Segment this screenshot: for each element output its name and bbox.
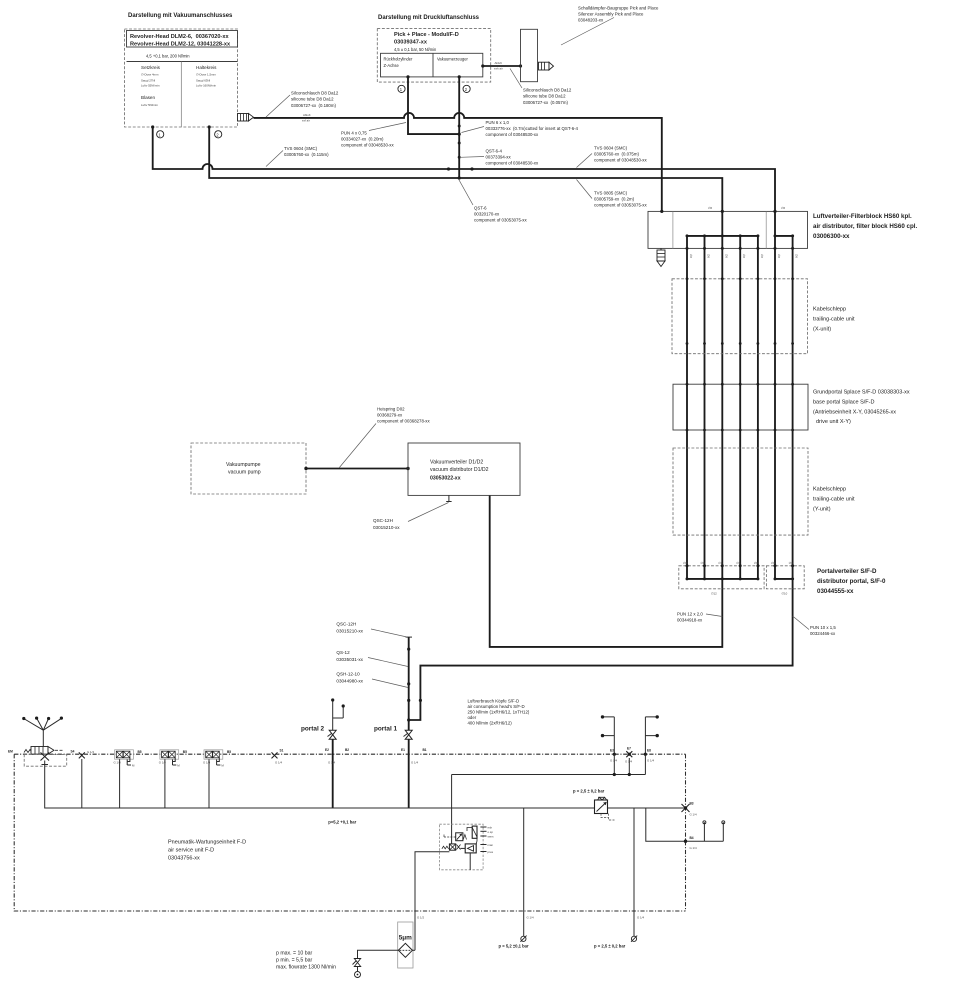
svg-text:4,5 ± 0,1 bar, 50 Nl/min: 4,5 ± 0,1 bar, 50 Nl/min <box>394 47 437 52</box>
svg-text:Revolver-Head DLM2-12, 0304122: Revolver-Head DLM2-12, 03041228-xx <box>130 42 231 48</box>
label QSC-12H riser <box>336 622 407 638</box>
tube PUN6 from box2 port2 <box>458 77 461 180</box>
wire drop line 3 <box>721 236 723 566</box>
box Pick+Place titles <box>394 32 459 52</box>
svg-text:Saugl 27Nl: Saugl 27Nl <box>141 79 155 83</box>
wire drop line 2 <box>704 236 706 566</box>
label QSC-12H under distributor <box>373 503 449 531</box>
svg-text:component of 03048530-xx: component of 03048530-xx <box>486 161 539 166</box>
svg-text:03005760-xx (0.075m): 03005760-xx (0.075m) <box>594 152 639 157</box>
silencer muffler on box1 right edge <box>238 114 254 122</box>
svg-text:B5: B5 <box>227 750 231 754</box>
node port2 box2 <box>458 75 471 92</box>
svg-text:vacuum pump: vacuum pump <box>228 470 261 476</box>
svg-text:2: 2 <box>216 132 219 137</box>
svg-text:air distributor, filter block: air distributor, filter block HS60 cpl. <box>813 223 917 230</box>
node port1 box2 <box>398 75 410 92</box>
svg-text:00344918-xx: 00344918-xx <box>677 618 703 623</box>
svg-text:∅-Duse 1,5mm: ∅-Duse 1,5mm <box>196 73 216 77</box>
svg-text:B3: B3 <box>690 802 694 806</box>
svg-text:G 1/4: G 1/4 <box>647 759 654 763</box>
label Kabelschlepp Y-unit <box>813 487 855 513</box>
title Darstellung mit Druckluftanschluss <box>378 15 480 21</box>
svg-text:03044980-xx: 03044980-xx <box>336 679 363 684</box>
box Kabelschlepp Y-unit <box>673 448 808 535</box>
svg-text:∅6: ∅6 <box>689 254 693 259</box>
filter unit B5 no2 <box>159 750 187 808</box>
svg-text:∅6: ∅6 <box>707 254 711 259</box>
valve B3 on right edge <box>682 802 697 817</box>
svg-text:Darstellung mit Vakuumanschlus: Darstellung mit Vakuumanschlusses <box>128 13 233 19</box>
svg-text:Abluft: Abluft <box>495 61 503 65</box>
svg-text:Silencer Assembly Pick and Pla: Silencer Assembly Pick and Place <box>578 12 644 17</box>
svg-text:Pneumatik-Wartungseinheit F-D: Pneumatik-Wartungseinheit F-D <box>168 840 246 846</box>
svg-text:component of 03048530-xx: component of 03048530-xx <box>594 158 647 163</box>
svg-text:M: M <box>177 764 180 768</box>
svg-text:Schalldämpfer-Baugruppe Pick a: Schalldämpfer-Baugruppe Pick and Place <box>578 6 659 11</box>
service assembly check valve <box>465 843 493 854</box>
svg-text:Luftverteiler-Filterblock HS60: Luftverteiler-Filterblock HS60 kpl. <box>813 213 912 220</box>
filter block internal manifold middle <box>686 211 760 237</box>
svg-text:∅6: ∅6 <box>754 561 759 565</box>
labels diam12 diam10 outputs <box>711 592 788 596</box>
svg-text:QS-12: QS-12 <box>336 650 350 655</box>
valve portal 1 <box>374 726 412 740</box>
wire gauge2 drop <box>634 808 644 936</box>
wire portal2 valve to bus <box>332 739 334 808</box>
label TVS 0604 right <box>577 146 648 168</box>
svg-text:00334027-xx (0.20m): 00334027-xx (0.20m) <box>341 137 384 142</box>
dots at filter block bottom edge <box>686 247 795 250</box>
label QST-6-4 <box>460 149 539 166</box>
svg-text:QSC-12H: QSC-12H <box>373 518 393 523</box>
gauge p=2,5 bar <box>594 936 637 949</box>
svg-text:00324466-xx: 00324466-xx <box>810 631 836 636</box>
node portal2 crossing labels <box>325 748 349 765</box>
svg-text:component of 03048530-xx: component of 03048530-xx <box>486 132 539 137</box>
filter 5um <box>398 922 415 968</box>
svg-text:G 1/4: G 1/4 <box>328 761 335 765</box>
svg-text:03043756-xx: 03043756-xx <box>168 856 200 862</box>
svg-text:00373394-xx: 00373394-xx <box>486 155 512 160</box>
svg-text:Heispring D02: Heispring D02 <box>377 407 405 412</box>
svg-text:∅6: ∅6 <box>708 206 713 210</box>
svg-text:03006727-xx (0.057m): 03006727-xx (0.057m) <box>523 100 568 105</box>
wire supply to filter <box>358 950 399 958</box>
svg-text:G 1/4: G 1/4 <box>637 916 644 920</box>
label Luftverbrauch Koepfe <box>468 699 530 726</box>
svg-text:∅12: ∅12 <box>711 592 717 596</box>
svg-text:2: 2 <box>465 87 468 92</box>
svg-text:pres: pres <box>488 850 494 854</box>
svg-text:∅6: ∅6 <box>771 561 776 565</box>
svg-text:Saugl 63Nl: Saugl 63Nl <box>196 79 210 83</box>
svg-text:B4: B4 <box>690 836 694 840</box>
svg-text:250 Nl/min (1xRH6/12, 1xTH12): 250 Nl/min (1xRH6/12, 1xTH12) <box>468 710 530 715</box>
wire riser to service assembly <box>451 775 453 837</box>
svg-text:QSC-12H: QSC-12H <box>336 622 356 627</box>
wire branch B4 <box>646 808 725 850</box>
box Pick+Place outer dashed <box>377 28 490 82</box>
svg-text:M: M <box>221 764 224 768</box>
svg-text:p max. = 10 bar: p max. = 10 bar <box>276 951 312 957</box>
svg-text:03053022-xx: 03053022-xx <box>430 476 461 482</box>
wire drop line 1 <box>686 236 688 566</box>
svg-text:∅6: ∅6 <box>777 254 781 259</box>
vent silencer assembly left <box>8 747 63 755</box>
svg-text:1: 1 <box>400 87 403 92</box>
svg-text:Vakuumpumpe: Vakuumpumpe <box>226 462 261 468</box>
svg-text:trailing-cable unit: trailing-cable unit <box>813 497 855 503</box>
service assembly solenoid valve <box>467 826 494 844</box>
svg-text:Z-Achse: Z-Achse <box>384 63 400 68</box>
svg-text:EM: EM <box>8 750 13 754</box>
svg-text:Revolver-Head DLM2-6, 0036702: Revolver-Head DLM2-6, 00367020-xx <box>130 34 229 40</box>
regulator with relief p=2,5 bar <box>573 789 615 821</box>
valve S4 on main line <box>71 750 95 809</box>
svg-text:Blasen: Blasen <box>141 95 155 100</box>
label Pneumatik-Wartungseinheit <box>168 840 246 862</box>
svg-text:G 1/4: G 1/4 <box>690 846 697 850</box>
svg-text:exf air: exf air <box>302 119 310 123</box>
svg-text:4,5 +0,1 bar, 200 Nl/min: 4,5 +0,1 bar, 200 Nl/min <box>146 54 190 59</box>
wire pump to distributor <box>304 467 409 470</box>
svg-text:03006727-xx (0.180m): 03006727-xx (0.180m) <box>291 103 336 108</box>
svg-text:QST-6: QST-6 <box>474 206 487 211</box>
svg-text:portal 2: portal 2 <box>301 726 325 733</box>
service assembly dashed box <box>439 824 483 870</box>
label PUN 6x1,0 <box>462 120 579 137</box>
svg-text:∅6: ∅6 <box>760 254 764 259</box>
label air distributor filter block <box>813 213 917 240</box>
svg-text:Vakuumerzeuger: Vakuumerzeuger <box>437 57 469 62</box>
svg-text:03044555-xx: 03044555-xx <box>817 588 854 595</box>
node QSC-12H cap on portal1 riser <box>406 636 413 638</box>
svg-text:PUN 12 x 2,0: PUN 12 x 2,0 <box>677 612 703 617</box>
wire distribution line y774 <box>452 754 646 776</box>
svg-text:man: man <box>488 843 494 847</box>
svg-text:S4: S4 <box>71 750 75 754</box>
svg-text:o.sp: o.sp <box>488 830 494 834</box>
label PUN 4x0,75 <box>341 123 406 148</box>
air distributor filter block HS60 <box>648 210 808 249</box>
tube TVS0604 from box1 port1 <box>153 127 448 169</box>
svg-text:Luftv 5Nl/min: Luftv 5Nl/min <box>141 103 158 107</box>
svg-text:PUN 4 x 0,75: PUN 4 x 0,75 <box>341 131 367 136</box>
label Grundportal <box>813 390 910 426</box>
svg-text:B5: B5 <box>138 750 142 754</box>
wire portal1 valve to bus <box>408 739 410 808</box>
svg-text:5μm: 5μm <box>399 935 412 942</box>
svg-text:p = 2,5 ± 0,2 bar: p = 2,5 ± 0,2 bar <box>573 789 605 794</box>
wire gauge1 drop <box>524 808 534 936</box>
svg-text:QST-6-4: QST-6-4 <box>486 149 503 154</box>
svg-text:∅6: ∅6 <box>742 254 746 259</box>
svg-text:G 1/4: G 1/4 <box>625 760 632 764</box>
svg-text:silicone tube D8 Da12: silicone tube D8 Da12 <box>291 97 334 102</box>
tube silicone abluft line box1 to filter block <box>254 113 662 211</box>
label Silikonschlauch 0.180m <box>266 91 339 118</box>
wire abluft exhaust from box2 to silencer <box>481 61 522 71</box>
svg-text:TVS 0805 (SMC): TVS 0805 (SMC) <box>594 191 628 196</box>
box Portalverteiler right section <box>766 564 804 589</box>
label QST-6 <box>459 179 528 223</box>
gauge p=5,2 bar <box>499 936 529 949</box>
tube TVS0805 from box1 port2 <box>209 127 722 211</box>
svg-text:Haltekreis: Haltekreis <box>196 65 217 70</box>
box Kabelschlepp X-unit <box>672 277 808 353</box>
svg-text:∅6: ∅6 <box>724 254 728 259</box>
svg-text:exh air: exh air <box>494 67 503 71</box>
filter unit B5 no3 <box>203 750 231 808</box>
svg-text:exh: exh <box>488 826 493 830</box>
node QST-6 tee dots <box>447 167 474 170</box>
svg-text:03015210-xx: 03015210-xx <box>336 629 363 634</box>
svg-text:00320170-xx: 00320170-xx <box>474 212 500 217</box>
svg-text:portal 1: portal 1 <box>374 726 398 733</box>
svg-text:Setzkreis: Setzkreis <box>141 65 161 70</box>
svg-text:air consumption head's S/F-D: air consumption head's S/F-D <box>468 704 525 709</box>
valve portal 2 <box>301 726 336 740</box>
node QSC-12H stub under distributor <box>446 495 451 501</box>
label supply conditions <box>276 951 336 971</box>
svg-text:distributor portal, S/F-0: distributor portal, S/F-0 <box>817 578 886 585</box>
svg-text:Kabelschlepp: Kabelschlepp <box>813 487 846 493</box>
svg-text:∅6: ∅6 <box>718 561 723 565</box>
svg-text:∅10: ∅10 <box>782 592 788 596</box>
svg-text:∅6: ∅6 <box>683 561 688 565</box>
svg-text:E1: E1 <box>401 748 405 752</box>
svg-text:Vakuumverteiler D1/D2: Vakuumverteiler D1/D2 <box>430 460 483 466</box>
box Grundportal Splace <box>673 383 808 432</box>
exhaust manifold fan <box>22 717 63 747</box>
title Darstellung mit Vakuumanschlusses <box>128 13 233 19</box>
svg-text:Portalverteiler S/F-D: Portalverteiler S/F-D <box>817 568 877 575</box>
svg-text:1: 1 <box>158 132 161 137</box>
svg-text:Luftv 160Nl/min: Luftv 160Nl/min <box>196 84 216 88</box>
service assembly pilot regulator <box>444 833 467 841</box>
wire drop line 7 <box>792 236 794 566</box>
svg-text:03005759-xx (0.2m): 03005759-xx (0.2m) <box>594 197 635 202</box>
divider lines box1 <box>127 62 238 128</box>
valve supply shutoff <box>353 959 361 972</box>
svg-text:vacuum distributor D1/D2: vacuum distributor D1/D2 <box>430 467 489 473</box>
node port1 box1 <box>151 125 164 137</box>
svg-text:03048203-xx: 03048203-xx <box>578 18 604 23</box>
svg-text:03006300-xx: 03006300-xx <box>813 233 850 240</box>
label Heissring D02 <box>339 407 430 468</box>
box vent valve dashed <box>24 754 66 766</box>
svg-text:Rückholzylinder: Rückholzylinder <box>384 57 414 62</box>
label Portalverteiler <box>817 568 886 595</box>
svg-text:base portal Splace S/F-D: base portal Splace S/F-D <box>813 400 874 406</box>
svg-text:∅6: ∅6 <box>789 561 794 565</box>
label Haltekreis column <box>196 65 217 88</box>
svg-text:max. flowrate 1300 Nl/min: max. flowrate 1300 Nl/min <box>276 965 336 971</box>
wire filter inlet line <box>415 852 449 951</box>
svg-text:G 1/4: G 1/4 <box>87 750 94 754</box>
svg-text:PUN 10 x 1,5: PUN 10 x 1,5 <box>810 625 836 630</box>
box Revolver-Head title cell <box>127 31 238 48</box>
silencer assembly pick and place <box>521 29 554 81</box>
svg-text:03035031-xx: 03035031-xx <box>336 657 363 662</box>
labels diam6 above portal distributor <box>683 561 793 565</box>
svg-text:component of 00368278-xx: component of 00368278-xx <box>377 419 430 424</box>
label Kabelschlepp X-unit <box>813 307 855 333</box>
stub group E3 left pair <box>601 715 618 774</box>
label QSH-12-10 <box>336 672 408 688</box>
svg-text:Luftv 55Nl/min: Luftv 55Nl/min <box>141 84 160 88</box>
svg-text:(X-unit): (X-unit) <box>813 327 831 333</box>
node compressed air source <box>355 972 361 978</box>
svg-text:03015210-xx: 03015210-xx <box>373 525 400 530</box>
svg-text:Darstellung mit Druckluftansch: Darstellung mit Druckluftanschluss <box>378 15 480 21</box>
svg-text:G 1/4: G 1/4 <box>527 916 534 920</box>
box Pick+Place inner cells <box>381 53 483 77</box>
filter unit B5 no1 <box>114 750 142 808</box>
svg-text:Luftverbrauch Köpfe S/F-D: Luftverbrauch Köpfe S/F-D <box>468 699 520 704</box>
box Portalverteiler left section <box>679 564 764 589</box>
label TVS 0604 left <box>266 146 329 167</box>
stub group E8 right pair <box>644 715 659 762</box>
enclosure air service unit dash-dot box <box>14 754 685 911</box>
svg-text:∅6: ∅6 <box>781 206 786 210</box>
node portal1 crossing labels <box>401 748 427 765</box>
label Abluft on silicone line <box>302 113 311 123</box>
label diam6 at filter block inputs <box>708 206 786 210</box>
svg-text:03005760-xx (0.115m): 03005760-xx (0.115m) <box>284 152 329 157</box>
svg-text:p = 2,5 ± 0,2 bar: p = 2,5 ± 0,2 bar <box>594 944 626 949</box>
svg-text:400 Nl/min (2xRH6/12): 400 Nl/min (2xRH6/12) <box>468 721 513 726</box>
svg-text:component of 03048530-xx: component of 03048530-xx <box>341 143 394 148</box>
filter block internal manifold right <box>774 211 795 237</box>
svg-text:component of 03053075-xx: component of 03053075-xx <box>594 203 647 208</box>
label Setzkreis column <box>141 65 161 107</box>
svg-text:∅6: ∅6 <box>701 561 706 565</box>
svg-text:E2: E2 <box>325 748 329 752</box>
svg-text:B1: B1 <box>423 748 427 752</box>
node port2 box1 <box>208 125 222 137</box>
svg-text:G 1/4: G 1/4 <box>690 813 697 817</box>
svg-text:B2: B2 <box>345 748 349 752</box>
svg-text:G 1/4: G 1/4 <box>610 759 617 763</box>
svg-text:Silconschlauch D8 Da12: Silconschlauch D8 Da12 <box>291 91 339 96</box>
box Vakuumverteiler D1/D2 <box>408 443 520 495</box>
svg-text:sens: sens <box>488 835 495 839</box>
svg-text:G 1/4: G 1/4 <box>411 761 418 765</box>
svg-text:E8: E8 <box>647 749 651 753</box>
svg-text:drive unit X-Y): drive unit X-Y) <box>816 419 851 425</box>
svg-text:air service unit F-D: air service unit F-D <box>168 848 214 854</box>
valve manual shutoff left <box>41 753 50 765</box>
svg-text:QSH-12-10: QSH-12-10 <box>336 672 360 677</box>
tube PUN10 to portal1 line <box>409 589 793 720</box>
svg-text:(Y-unit): (Y-unit) <box>813 507 831 513</box>
svg-text:TVS 0604 (SMC): TVS 0604 (SMC) <box>594 146 628 151</box>
label Silikonschlauch 0.057m <box>510 69 572 106</box>
svg-text:∅6: ∅6 <box>795 254 799 259</box>
svg-text:trailing-cable unit: trailing-cable unit <box>813 317 855 323</box>
svg-text:S1: S1 <box>280 749 284 753</box>
label pressure rating box1 <box>146 54 190 59</box>
svg-text:Grundportal Splace S/F-D 03038: Grundportal Splace S/F-D 03038303-xx <box>813 390 910 396</box>
box Vakuumpumpe <box>191 443 306 494</box>
svg-text:p min. = 5,5 bar: p min. = 5,5 bar <box>276 958 312 964</box>
label PUN 10x1,5 <box>793 616 837 636</box>
svg-text:Kabelschlepp: Kabelschlepp <box>813 307 846 313</box>
svg-text:component of 03053075-xx: component of 03053075-xx <box>474 218 527 223</box>
svg-text:∅-Duse 4mm: ∅-Duse 4mm <box>141 73 159 77</box>
label QS-12 <box>336 650 408 667</box>
svg-text:E7: E7 <box>627 747 631 751</box>
svg-text:M: M <box>132 764 135 768</box>
svg-text:∅6: ∅6 <box>736 561 741 565</box>
svg-text:oder: oder <box>468 715 477 720</box>
svg-text:silicone tube D8 Da12: silicone tube D8 Da12 <box>523 94 566 99</box>
svg-text:G 1/2: G 1/2 <box>417 916 424 920</box>
silencer under filter block <box>657 248 665 266</box>
svg-text:G 1/4: G 1/4 <box>275 761 282 765</box>
svg-text:E3: E3 <box>610 749 614 753</box>
wire vent valve to bottom bus <box>45 765 686 809</box>
node portal2 stubs <box>331 698 345 730</box>
labels diam6 rotated under filter block <box>689 254 799 259</box>
service assembly shutoff cluster <box>442 837 470 870</box>
valve E7 on main line <box>625 747 632 775</box>
svg-text:00333776-xx (0.7m)cutted for: 00333776-xx (0.7m)cutted for insert at Q… <box>486 126 579 131</box>
label TVS 0805 <box>577 180 648 208</box>
tube TVS0604 right part to filter block <box>448 169 775 211</box>
svg-text:p = 5,2 ±0,1 bar: p = 5,2 ±0,1 bar <box>499 944 529 949</box>
svg-text:00368279-xx: 00368279-xx <box>377 413 403 418</box>
svg-text:TVS 0604 (SMC): TVS 0604 (SMC) <box>284 146 318 151</box>
svg-text:03039347-xx: 03039347-xx <box>394 40 428 46</box>
box Revolver-Head DLM2 outer <box>125 29 238 127</box>
label PUN 12x2,0 <box>677 612 722 623</box>
main line top edge dash-dot <box>14 753 685 755</box>
wire drop line 6 <box>774 236 776 566</box>
wire drop line 4 <box>739 236 741 566</box>
svg-text:(Antriebseinheit X-Y, 03045265: (Antriebseinheit X-Y, 03045265-xx <box>813 410 896 416</box>
svg-text:Siliconschlauch D8 Da12: Siliconschlauch D8 Da12 <box>523 88 572 93</box>
valve S1 on main line <box>272 749 284 765</box>
svg-text:PUN 6 x 1,0: PUN 6 x 1,0 <box>486 120 510 125</box>
tube PUN4 from box2 port1 <box>408 77 461 136</box>
tube PUN12 to vacuum distributor <box>490 495 723 647</box>
label p=5,2 bar mid <box>328 820 356 825</box>
wire drop line 5 <box>757 236 759 566</box>
svg-text:B5: B5 <box>183 750 187 754</box>
label Schalldaempfer-Baugruppe <box>561 6 659 46</box>
svg-text:p=5,2 +0,1 bar: p=5,2 +0,1 bar <box>328 820 356 825</box>
tube portal1 riser <box>407 637 422 730</box>
svg-text:Pick + Place - Modul/F-D: Pick + Place - Modul/F-D <box>394 32 459 38</box>
svg-text:Abluft: Abluft <box>303 113 311 117</box>
